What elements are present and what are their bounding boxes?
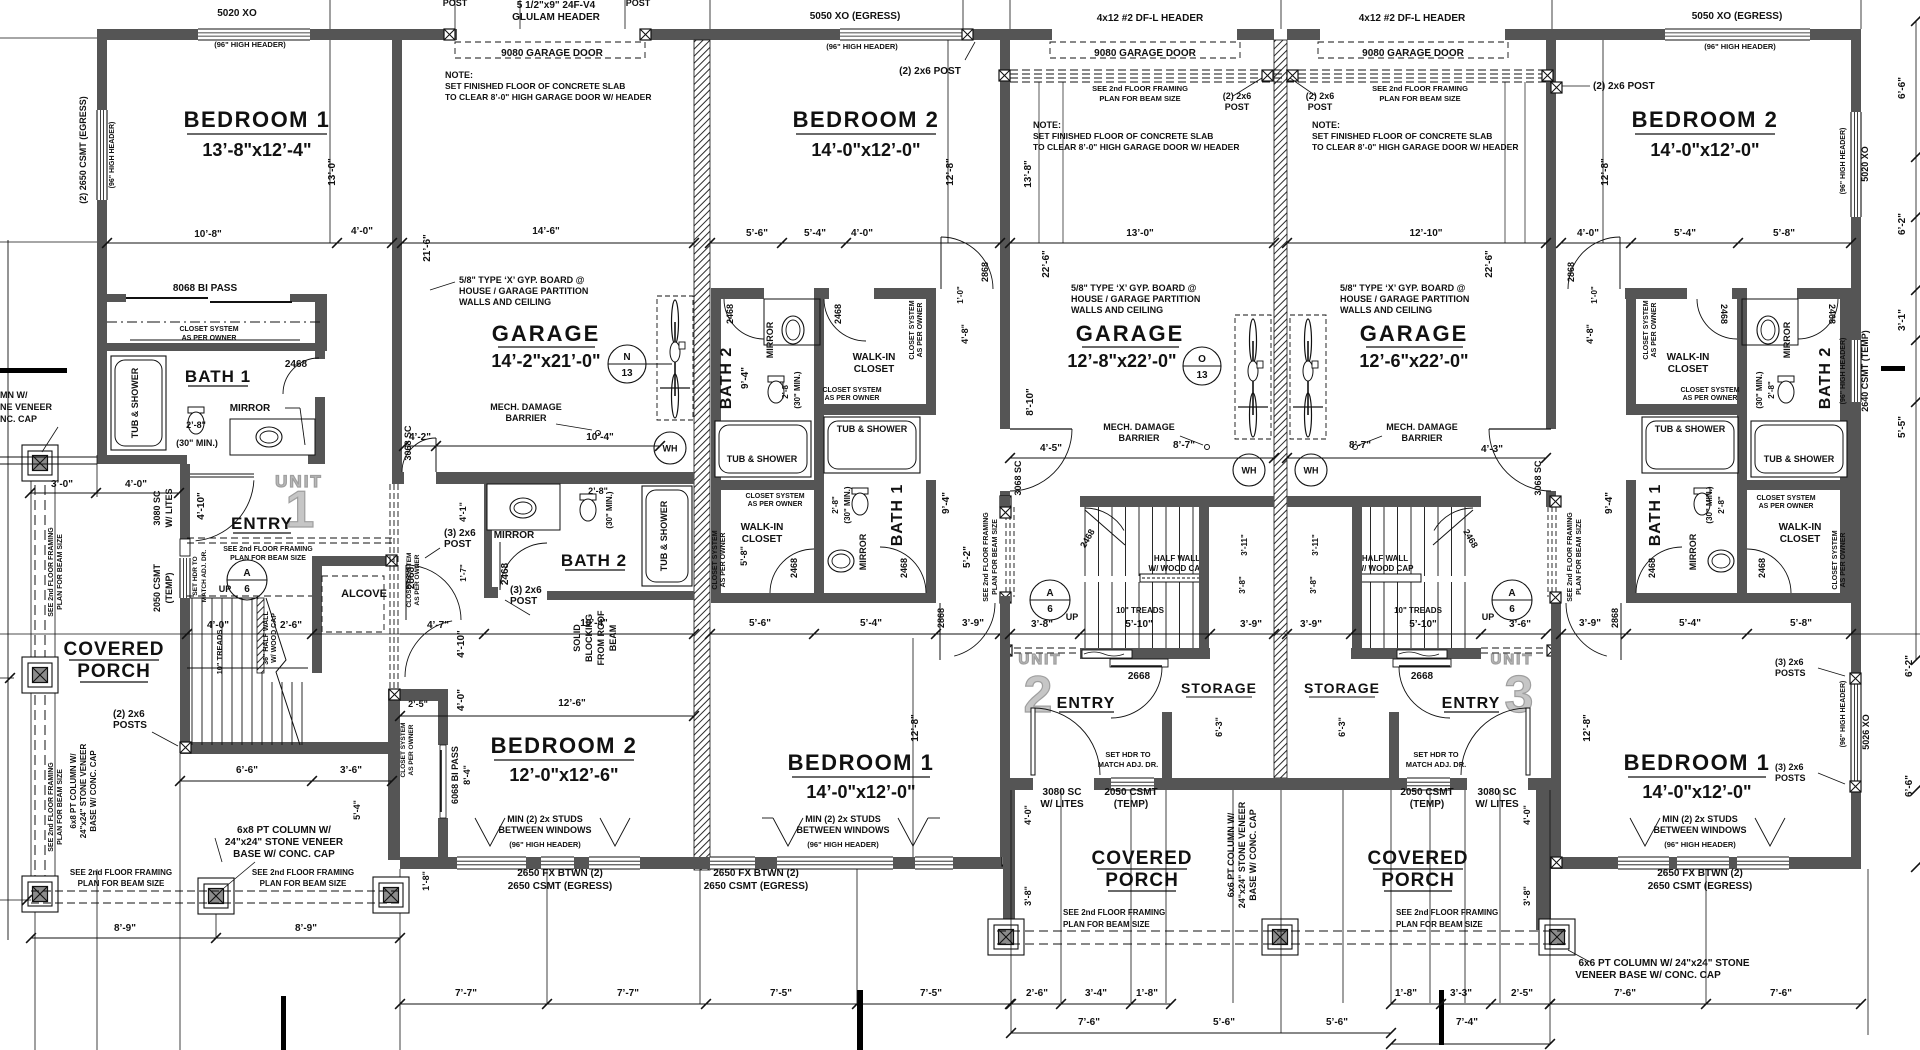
svg-text:BASE W/ CONC. CAP: BASE W/ CONC. CAP [89, 750, 98, 832]
svg-text:13: 13 [621, 368, 633, 379]
svg-text:2868: 2868 [1610, 608, 1620, 628]
svg-text:AS PER OWNER: AS PER OWNER [408, 724, 415, 775]
svg-text:2468: 2468 [899, 558, 909, 578]
svg-text:5’-8": 5’-8" [739, 546, 749, 566]
svg-text:W/ WOOD CAP: W/ WOOD CAP [1149, 564, 1207, 573]
toilet bath2 unit1 [580, 494, 596, 500]
svg-text:BATH 2: BATH 2 [561, 551, 627, 570]
svg-text:2650 FX BTWN (2): 2650 FX BTWN (2) [517, 868, 603, 879]
svg-text:CLOSET SYSTEM: CLOSET SYSTEM [1680, 387, 1739, 394]
svg-text:MATCH ADJ. DR.: MATCH ADJ. DR. [201, 550, 208, 603]
porch beams dashed bottom left [31, 890, 400, 892]
post bottom unit3 [1551, 857, 1562, 868]
svg-text:AS PER OWNER: AS PER OWNER [414, 554, 421, 605]
svg-text:3’-11": 3’-11" [1311, 534, 1320, 556]
svg-text:4’-7": 4’-7" [427, 620, 449, 631]
svg-text:14’-2"x21’-0": 14’-2"x21’-0" [491, 351, 600, 371]
svg-text:5’-4": 5’-4" [860, 618, 882, 629]
svg-text:2’-5": 2’-5" [1511, 988, 1533, 999]
bold section mark left [0, 368, 67, 373]
svg-text:4’-0": 4’-0" [207, 620, 229, 631]
svg-text:MIRROR: MIRROR [230, 403, 271, 414]
svg-text:10’-8": 10’-8" [194, 229, 222, 240]
svg-text:AS PER OWNER: AS PER OWNER [1683, 395, 1738, 402]
svg-text:3’-6": 3’-6" [340, 765, 362, 776]
closet mid wall unit3 [1737, 480, 1841, 490]
wall bedroom2/garage unit2 vertical [1000, 29, 1010, 429]
svg-text:5’-4": 5’-4" [804, 228, 826, 239]
svg-text:HOUSE / GARAGE PARTITION: HOUSE / GARAGE PARTITION [1071, 294, 1200, 304]
svg-text:TO CLEAR 8’-0" HIGH GARAGE DOO: TO CLEAR 8’-0" HIGH GARAGE DOOR W/ HEADE… [1033, 142, 1239, 152]
svg-text:SEE 2nd FLOOR FRAMING: SEE 2nd FLOOR FRAMING [1396, 908, 1498, 917]
svg-text:(96" HIGH HEADER): (96" HIGH HEADER) [1840, 128, 1847, 195]
svg-text:4’-0": 4’-0" [125, 479, 147, 490]
svg-text:BEDROOM 1: BEDROOM 1 [788, 750, 935, 775]
entry bottom wall middle [1003, 778, 1033, 790]
svg-text:SET HDR TO: SET HDR TO [1105, 750, 1150, 759]
svg-text:(30" MIN.): (30" MIN.) [176, 438, 218, 448]
svg-text:TUB & SHOWER: TUB & SHOWER [130, 367, 140, 438]
svg-text:UP: UP [1066, 612, 1079, 622]
svg-text:W/ WOOD CAP: W/ WOOD CAP [1357, 564, 1415, 573]
svg-text:22’-6": 22’-6" [1484, 250, 1495, 278]
svg-text:2’-8": 2’-8" [186, 420, 206, 430]
party wall hatched unit1/unit2 top [694, 29, 710, 40]
svg-text:12’-6": 12’-6" [558, 698, 586, 709]
svg-text:(30" MIN.): (30" MIN.) [1755, 371, 1764, 408]
svg-text:(30" MIN.): (30" MIN.) [605, 491, 614, 528]
storage door arc unit3 [1399, 665, 1450, 667]
svg-text:VENEER BASE W/ CONC. CAP: VENEER BASE W/ CONC. CAP [1575, 970, 1721, 981]
svg-text:POSTS: POSTS [113, 720, 147, 731]
walkin/bath1 wall unit3 [1626, 404, 1738, 415]
svg-text:SEE 2nd FLOOR FRAMING: SEE 2nd FLOOR FRAMING [1567, 512, 1574, 602]
garage2 bottom wall [1080, 496, 1274, 507]
svg-text:MATCH ADJ. DR.: MATCH ADJ. DR. [1406, 760, 1466, 769]
svg-text:5050 XO (EGRESS): 5050 XO (EGRESS) [1692, 11, 1783, 22]
svg-text:SEE 2nd FLOOR FRAMING: SEE 2nd FLOOR FRAMING [983, 512, 990, 602]
svg-text:2468: 2468 [833, 304, 843, 324]
entry window unit3 [1407, 778, 1450, 790]
porch left vertical lines [7, 240, 9, 940]
svg-text:WALK-IN: WALK-IN [853, 352, 896, 363]
svg-text:MIRROR: MIRROR [494, 530, 535, 541]
svg-text:6x6 PT COLUMN W/: 6x6 PT COLUMN W/ [1226, 812, 1236, 897]
svg-text:9080 GARAGE DOOR: 9080 GARAGE DOOR [501, 48, 603, 59]
svg-text:TUB & SHOWER: TUB & SHOWER [1655, 424, 1726, 434]
bath block top wall unit3 [1625, 288, 1687, 299]
svg-text:4’-0": 4’-0" [1577, 228, 1599, 239]
svg-text:3’-8": 3’-8" [1238, 576, 1247, 594]
porch dashed beam vertical left [34, 470, 36, 885]
svg-text:CLOSET SYSTEM: CLOSET SYSTEM [1756, 495, 1815, 502]
bottom wall unit2 bedroom1 [694, 857, 710, 869]
svg-text:(2) 2x6: (2) 2x6 [113, 709, 145, 720]
svg-text:5’-8": 5’-8" [1773, 228, 1795, 239]
svg-text:5’-10": 5’-10" [1409, 619, 1437, 630]
posts porch side walls [1002, 855, 1013, 866]
svg-text:(3) 2x6: (3) 2x6 [1775, 657, 1804, 667]
svg-text:POST: POST [1308, 102, 1333, 112]
window (2) 2650 CSMT EGRESS left wall [97, 110, 107, 200]
svg-text:MN W/: MN W/ [0, 390, 28, 400]
svg-text:10" TREADS: 10" TREADS [1116, 606, 1164, 615]
svg-text:AS PER OWNER: AS PER OWNER [182, 335, 237, 342]
bath block top wall unit2 [711, 288, 764, 299]
svg-text:CLOSET SYSTEM: CLOSET SYSTEM [406, 553, 413, 608]
svg-text:3’-9": 3’-9" [1579, 618, 1601, 629]
svg-text:MIN (2) 2x STUDS: MIN (2) 2x STUDS [507, 814, 583, 824]
right exterior wall [1851, 29, 1861, 112]
svg-text:WALK-IN: WALK-IN [741, 522, 784, 533]
svg-text:SEE 2nd FLOOR FRAMING: SEE 2nd FLOOR FRAMING [48, 527, 55, 617]
svg-text:5’-6": 5’-6" [746, 228, 768, 239]
svg-text:2’-8": 2’-8" [1767, 381, 1776, 399]
porch mid horizontal line left [0, 633, 400, 635]
svg-text:BEAM: BEAM [608, 625, 618, 652]
svg-text:TUB & SHOWER: TUB & SHOWER [1764, 454, 1835, 464]
svg-text:36" HALF WALL: 36" HALF WALL [263, 611, 270, 665]
svg-text:WH: WH [1242, 466, 1257, 476]
svg-text:A: A [1508, 588, 1515, 599]
window 5020 XO bedroom1 unit1 [198, 29, 310, 40]
svg-text:MIRROR: MIRROR [1688, 533, 1698, 570]
svg-text:13’-8"x12’-4": 13’-8"x12’-4" [202, 140, 311, 160]
dashed post lines unit1 [389, 484, 391, 688]
svg-text:3’-8": 3’-8" [1522, 886, 1532, 906]
svg-text:6’-3": 6’-3" [1337, 717, 1347, 737]
svg-text:NOTE:: NOTE: [1033, 120, 1061, 130]
svg-text:5 1/2"x9" 24F-V4: 5 1/2"x9" 24F-V4 [517, 0, 596, 11]
half wall unit2 stair [1140, 574, 1204, 582]
garage3 door dashed [1318, 42, 1508, 58]
svg-text:3068 SC: 3068 SC [1013, 460, 1023, 496]
svg-text:WALLS AND CEILING: WALLS AND CEILING [1340, 305, 1432, 315]
svg-text:14’-0"x12’-0": 14’-0"x12’-0" [1642, 782, 1751, 802]
svg-text:6068 BI PASS: 6068 BI PASS [450, 746, 460, 804]
post top garage1 [444, 29, 455, 40]
svg-text:(2) 2650 CSMT (EGRESS): (2) 2650 CSMT (EGRESS) [78, 96, 88, 204]
porch side wall unit3 [1536, 790, 1551, 930]
mirror counter bath2 unit1 [487, 484, 560, 530]
svg-text:SET FINISHED FLOOR OF CONCRETE: SET FINISHED FLOOR OF CONCRETE SLAB [445, 81, 625, 91]
wh garage2 [1233, 454, 1265, 486]
svg-text:AS PER OWNER: AS PER OWNER [1651, 303, 1658, 358]
svg-text:2650 CSMT (EGRESS): 2650 CSMT (EGRESS) [508, 881, 612, 892]
top dim verticals [329, 0, 331, 29]
dashed post lines unit2 [1005, 507, 1007, 597]
bath block center wall unit2 [814, 293, 824, 603]
bath1 bottom wall / porch edge unit1 [97, 455, 187, 464]
alcove top wall unit1 [312, 556, 396, 566]
svg-text:8’-4": 8’-4" [462, 765, 472, 785]
windows 2650 unit1 [457, 857, 526, 869]
svg-text:4’-0": 4’-0" [851, 228, 873, 239]
svg-text:BATH 1: BATH 1 [889, 484, 906, 547]
svg-text:HOUSE / GARAGE PARTITION: HOUSE / GARAGE PARTITION [459, 286, 588, 296]
porch top lines left [0, 241, 97, 243]
stair right wall unit2 [1199, 507, 1209, 648]
svg-text:PLAN FOR BEAM SIZE: PLAN FOR BEAM SIZE [1576, 519, 1583, 595]
bi-pass 6068 unit1 bedroom2 closet [440, 745, 446, 818]
svg-text:GARAGE: GARAGE [492, 321, 601, 346]
bedroom2 left wall unit1 [388, 695, 400, 860]
svg-text:SEE 2nd FLOOR FRAMING: SEE 2nd FLOOR FRAMING [70, 868, 172, 877]
svg-text:WH: WH [1304, 466, 1319, 476]
svg-text:BATH 1: BATH 1 [1647, 484, 1664, 547]
svg-text:TUB & SHOWER: TUB & SHOWER [659, 500, 669, 571]
svg-text:(96" HIGH HEADER): (96" HIGH HEADER) [1704, 42, 1776, 51]
svg-text:21’-6": 21’-6" [422, 234, 433, 262]
svg-text:(96" HIGH HEADER): (96" HIGH HEADER) [1840, 338, 1847, 405]
svg-text:4x12 #2 DF-L HEADER: 4x12 #2 DF-L HEADER [1359, 13, 1466, 24]
svg-text:PLAN FOR BEAM SIZE: PLAN FOR BEAM SIZE [78, 879, 165, 888]
svg-text:(96" HIGH HEADER): (96" HIGH HEADER) [826, 42, 898, 51]
svg-text:BATH 1: BATH 1 [185, 367, 251, 386]
svg-text:13’-8": 13’-8" [1023, 160, 1034, 188]
porch vertical lines middle [1060, 790, 1062, 1003]
svg-text:6’-2": 6’-2" [1904, 655, 1915, 677]
svg-text:13: 13 [1196, 370, 1208, 381]
garage1 bottom wall [392, 472, 404, 484]
svg-text:2668: 2668 [1128, 671, 1151, 682]
svg-text:2’-8": 2’-8" [781, 381, 790, 399]
toilet bath2 unit3 [1778, 376, 1794, 382]
svg-text:ENTRY: ENTRY [231, 514, 293, 533]
bedroom2 closet right wall unit1 [438, 689, 448, 745]
svg-text:PLAN FOR BEAM SIZE: PLAN FOR BEAM SIZE [1063, 920, 1150, 929]
svg-text:PLAN FOR BEAM SIZE: PLAN FOR BEAM SIZE [992, 519, 999, 595]
svg-text:14’-0"x12’-0": 14’-0"x12’-0" [806, 782, 915, 802]
wh garage3 [1295, 454, 1327, 486]
window 2640 CSMT right wall [1851, 340, 1861, 402]
svg-text:MIRROR: MIRROR [765, 321, 775, 358]
svg-text:MECH. DAMAGE: MECH. DAMAGE [1103, 422, 1175, 432]
svg-text:GLULAM HEADER: GLULAM HEADER [512, 12, 601, 23]
svg-text:PLAN FOR BEAM SIZE: PLAN FOR BEAM SIZE [260, 879, 347, 888]
bedroom2 closet top wall unit1 [388, 689, 448, 701]
svg-text:AS PER OWNER: AS PER OWNER [1759, 503, 1814, 510]
svg-text:4’-0": 4’-0" [1023, 805, 1033, 825]
ref circle A/6 unit3 [1492, 580, 1532, 620]
ref circle N/13 garage1 [608, 345, 646, 383]
svg-text:1’-8": 1’-8" [1395, 988, 1417, 999]
svg-text:TUB & SHOWER: TUB & SHOWER [837, 424, 908, 434]
bottom verticals [699, 869, 701, 1004]
svg-text:2’-6": 2’-6" [1026, 988, 1048, 999]
svg-text:POST: POST [444, 539, 471, 550]
svg-text:SEE 2nd FLOOR FRAMING: SEE 2nd FLOOR FRAMING [1372, 84, 1468, 93]
party wall unit2/unit3 hatched [1274, 40, 1287, 778]
svg-text:MIN (2) 2x STUDS: MIN (2) 2x STUDS [805, 814, 881, 824]
svg-text:2650 CSMT (EGRESS): 2650 CSMT (EGRESS) [1648, 881, 1752, 892]
svg-text:8’-7": 8’-7" [1349, 440, 1371, 451]
svg-text:4’-0": 4’-0" [456, 689, 467, 711]
window 5020 XO right wall [1851, 112, 1861, 217]
svg-text:POST: POST [626, 0, 651, 8]
svg-text:3’-9": 3’-9" [1300, 619, 1322, 630]
svg-text:7’-7": 7’-7" [455, 988, 477, 999]
svg-text:(30" MIN.): (30" MIN.) [843, 486, 852, 523]
svg-text:5020 XO: 5020 XO [217, 8, 257, 19]
svg-text:(2) 2x6 POST: (2) 2x6 POST [1593, 81, 1655, 92]
svg-text:2868: 2868 [936, 608, 946, 628]
svg-text:BETWEEN WINDOWS: BETWEEN WINDOWS [1654, 825, 1747, 835]
svg-text:SEE 2nd FLOOR FRAMING: SEE 2nd FLOOR FRAMING [1092, 84, 1188, 93]
party wall unit1/unit2 hatched full [694, 40, 710, 870]
svg-text:CLOSET SYSTEM: CLOSET SYSTEM [400, 723, 407, 778]
svg-text:2650 FX BTWN (2): 2650 FX BTWN (2) [713, 868, 799, 879]
svg-text:12’-8": 12’-8" [1600, 158, 1611, 186]
door 3068 garage2 arc [1010, 428, 1072, 430]
svg-text:(3) 2x6: (3) 2x6 [444, 528, 476, 539]
svg-text:SET FINISHED FLOOR OF CONCRETE: SET FINISHED FLOOR OF CONCRETE SLAB [1033, 131, 1213, 141]
bath block center wall unit3 [1737, 293, 1747, 603]
svg-text:5’-4": 5’-4" [1679, 618, 1701, 629]
svg-text:STORAGE: STORAGE [1181, 680, 1257, 696]
svg-text:4’-1": 4’-1" [458, 502, 468, 522]
storage door 2668 unit3 [1393, 659, 1451, 667]
wall garage3/bedroom block unit3 vertical [1546, 29, 1556, 429]
wall bedroom1-entry unit3 [1551, 596, 1561, 857]
svg-text:AS PER OWNER: AS PER OWNER [1840, 533, 1847, 588]
svg-text:BARRIER: BARRIER [1118, 433, 1160, 443]
svg-text:AS PER OWNER: AS PER OWNER [720, 533, 727, 588]
center section line extension [1280, 1003, 1282, 1033]
porch columns left [22, 445, 58, 481]
svg-text:7’-7": 7’-7" [617, 988, 639, 999]
svg-text:BASE W/ CONC. CAP: BASE W/ CONC. CAP [233, 849, 335, 860]
window 5026 XO right wall lower [1851, 684, 1861, 781]
svg-text:(3) 2x6: (3) 2x6 [510, 585, 542, 596]
svg-text:12’-8": 12’-8" [1582, 714, 1593, 742]
svg-text:CLOSET: CLOSET [1780, 534, 1821, 545]
svg-text:5/8" TYPE ‘X’ GYP. BOARD @: 5/8" TYPE ‘X’ GYP. BOARD @ [459, 275, 585, 285]
svg-text:13’-0": 13’-0" [327, 158, 338, 186]
svg-text:3’-9": 3’-9" [1240, 619, 1262, 630]
bottom wall unit1 bedroom2 [400, 857, 457, 869]
svg-text:TUB & SHOWER: TUB & SHOWER [727, 454, 798, 464]
svg-text:ALCOVE: ALCOVE [341, 588, 387, 600]
post at stair wall unit1 [180, 742, 191, 753]
svg-text:13’-0": 13’-0" [1126, 228, 1154, 239]
wall top exterior (left unit) [97, 29, 198, 40]
svg-text:14’-6": 14’-6" [532, 226, 560, 237]
toilet bath2 unit2 [768, 376, 784, 382]
svg-text:(3) 2x6: (3) 2x6 [1775, 762, 1804, 772]
svg-text:BETWEEN WINDOWS: BETWEEN WINDOWS [797, 825, 890, 835]
svg-text:W/ LITES: W/ LITES [1040, 799, 1084, 810]
toilet bath1 unit3 [1694, 488, 1710, 494]
svg-text:6’-6": 6’-6" [1897, 77, 1908, 99]
bath1 right wall unit1 [315, 351, 325, 359]
svg-text:2640 CSMT (TEMP): 2640 CSMT (TEMP) [1860, 330, 1870, 412]
bath2 bottom wall unit1 [547, 591, 694, 600]
svg-text:1’-8": 1’-8" [1136, 988, 1158, 999]
svg-text:12’-0"x12’-6": 12’-0"x12’-6" [509, 765, 618, 785]
svg-text:6’-2": 6’-2" [1897, 213, 1908, 235]
svg-text:12’-10": 12’-10" [1409, 228, 1442, 239]
svg-text:22’-6": 22’-6" [1041, 250, 1052, 278]
stair bottom wall unit2 [1080, 648, 1210, 659]
svg-text:6: 6 [244, 584, 250, 595]
bath block left wall unit2 [711, 288, 721, 603]
svg-text:COVERED: COVERED [1092, 848, 1193, 869]
svg-text:CLOSET SYSTEM: CLOSET SYSTEM [822, 387, 881, 394]
svg-text:5’-10": 5’-10" [1125, 619, 1153, 630]
svg-text:(2) 2x6: (2) 2x6 [1306, 91, 1335, 101]
svg-text:MECH. DAMAGE: MECH. DAMAGE [490, 402, 562, 412]
porch columns middle [988, 919, 1024, 955]
svg-text:2: 2 [1024, 666, 1053, 724]
svg-text:12’-6"x22’-0": 12’-6"x22’-0" [1359, 351, 1468, 371]
dim extension verticals garages [1038, 82, 1040, 243]
svg-text:2050 CSMT: 2050 CSMT [1400, 787, 1453, 798]
bath block right wall unit3 [1840, 288, 1851, 603]
svg-text:3’-6": 3’-6" [1509, 619, 1531, 630]
svg-text:SEE 2nd FLOOR FRAMING: SEE 2nd FLOOR FRAMING [223, 546, 313, 553]
tub bath1 unit3 [1642, 417, 1738, 473]
svg-text:CLOSET: CLOSET [742, 534, 783, 545]
garage2 door dashed [1050, 42, 1240, 58]
tub bath1 unit2 [824, 417, 920, 473]
svg-text:PORCH: PORCH [77, 661, 151, 682]
entry door swing unit1 [190, 473, 254, 475]
svg-text:5’-2": 5’-2" [962, 546, 973, 568]
svg-text:3’-3": 3’-3" [1450, 988, 1472, 999]
storage door arc unit2 [1111, 665, 1162, 667]
svg-text:STORAGE: STORAGE [1304, 680, 1380, 696]
svg-text:PORCH: PORCH [1105, 870, 1179, 891]
svg-text:BATH 2: BATH 2 [1817, 347, 1834, 410]
svg-text:PORCH: PORCH [1381, 870, 1455, 891]
svg-text:BEDROOM 1: BEDROOM 1 [1624, 750, 1771, 775]
wall bedroom1-entry unit2 [1000, 596, 1010, 857]
door 2868 alcove-bedroom arc [405, 621, 452, 677]
svg-text:UP: UP [1482, 612, 1495, 622]
svg-text:3080 SC: 3080 SC [1043, 787, 1082, 798]
svg-text:1’-8": 1’-8" [421, 871, 431, 891]
svg-text:12’-8": 12’-8" [945, 158, 956, 186]
svg-text:1’-0": 1’-0" [956, 286, 965, 304]
svg-text:7’-6": 7’-6" [1614, 988, 1636, 999]
stairs unit1 [191, 598, 193, 745]
stair landing line unit1 [187, 667, 308, 669]
svg-text:2868: 2868 [980, 262, 990, 282]
svg-text:7’-5": 7’-5" [770, 988, 792, 999]
svg-text:8068 BI PASS: 8068 BI PASS [173, 283, 238, 294]
entry left wall unit1 [180, 464, 190, 539]
svg-text:2468: 2468 [1757, 558, 1767, 578]
svg-text:A: A [243, 568, 250, 579]
svg-text:CLOSET SYSTEM: CLOSET SYSTEM [745, 493, 804, 500]
tub bath2 unit2 [715, 421, 811, 477]
svg-text:2650 CSMT (EGRESS): 2650 CSMT (EGRESS) [704, 881, 808, 892]
svg-text:6’-6": 6’-6" [236, 765, 258, 776]
svg-text:3’-0": 3’-0" [51, 479, 73, 490]
svg-text:HALF WALL: HALF WALL [1154, 554, 1200, 563]
svg-text:(96" HIGH HEADER): (96" HIGH HEADER) [1840, 681, 1847, 748]
svg-text:5’-4": 5’-4" [1674, 228, 1696, 239]
svg-text:5020 XO: 5020 XO [1860, 146, 1870, 182]
svg-text:HALF WALL: HALF WALL [1362, 554, 1408, 563]
svg-text:MIRROR: MIRROR [1782, 321, 1792, 358]
svg-text:9080 GARAGE DOOR: 9080 GARAGE DOOR [1362, 48, 1464, 59]
svg-text:PLAN FOR BEAM SIZE: PLAN FOR BEAM SIZE [57, 534, 64, 610]
windows 2650 unit3 [1618, 857, 1669, 869]
svg-text:8’-9": 8’-9" [295, 923, 317, 934]
mirror bath1 unit2 [828, 550, 854, 572]
